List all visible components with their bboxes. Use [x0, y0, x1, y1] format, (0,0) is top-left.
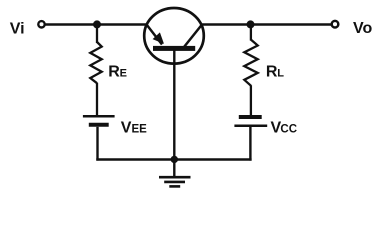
svg-text:L: L	[277, 68, 284, 80]
ground node junction	[171, 156, 178, 163]
svg-text:CC: CC	[280, 124, 297, 136]
transistor Q1	[144, 8, 204, 64]
wire RE to VEE	[96, 83, 98, 116]
wire base lead	[173, 50, 175, 160]
wire collector to output	[201, 23, 332, 25]
wire VEE to bottom rail	[96, 127, 98, 161]
svg-text:R: R	[266, 64, 278, 81]
ground	[159, 160, 191, 187]
battery VEE	[83, 116, 115, 125]
svg-text:V: V	[121, 120, 132, 137]
battery VCC	[234, 117, 267, 126]
node E junction	[93, 20, 101, 28]
wire junction to RE	[96, 25, 98, 44]
svg-text:E: E	[120, 68, 127, 80]
wire junction to RL	[250, 25, 252, 41]
svg-text:EE: EE	[132, 124, 148, 136]
svg-text:Vi: Vi	[10, 21, 25, 38]
wire input to emitter	[45, 23, 148, 25]
svg-text:R: R	[108, 64, 120, 81]
resistor RL	[244, 40, 257, 86]
wire VCC to bottom rail	[249, 127, 251, 161]
wire bottom rail	[96, 158, 251, 160]
wire RL to VCC	[250, 85, 252, 115]
resistor RE	[90, 42, 101, 83]
svg-text:Vo: Vo	[353, 20, 372, 37]
input terminal	[38, 21, 44, 27]
output terminal	[332, 21, 339, 28]
node C junction	[247, 20, 255, 28]
